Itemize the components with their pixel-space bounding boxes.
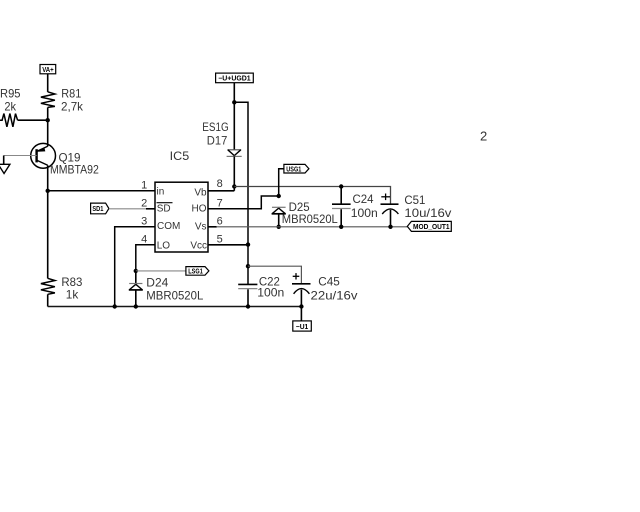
svg-text:100n: 100n xyxy=(257,285,284,299)
svg-text:ES1G: ES1G xyxy=(202,120,229,134)
svg-text:7: 7 xyxy=(217,198,223,210)
wire D24 to rail xyxy=(135,290,137,307)
node C22 on rail xyxy=(246,304,250,308)
wire down to ground xyxy=(3,156,5,165)
svg-text:−U1: −U1 xyxy=(296,324,309,331)
capacitor C51 plus xyxy=(381,194,390,201)
svg-text:22u/16v: 22u/16v xyxy=(311,288,358,302)
IC5 box xyxy=(155,182,208,252)
node D24 on rail xyxy=(134,304,138,308)
bottom rail wire xyxy=(48,306,302,308)
wire R95 to node xyxy=(18,119,48,121)
wire node to R83 xyxy=(47,191,49,279)
svg-text:HO: HO xyxy=(192,203,207,214)
svg-text:2,7k: 2,7k xyxy=(61,99,84,113)
wire pin1 net xyxy=(48,190,155,192)
node collector / pin1 / R83 xyxy=(46,189,50,193)
wire C24 bottom stub xyxy=(340,209,342,227)
resistor R81 xyxy=(41,92,55,108)
node Vb xyxy=(232,184,236,188)
svg-text:MBR0520L: MBR0520L xyxy=(282,212,338,226)
supply label VA+ xyxy=(40,65,56,75)
ground xyxy=(0,164,10,173)
resistor R95 xyxy=(0,114,18,127)
svg-text:1k: 1k xyxy=(66,288,79,302)
wire branch jog xyxy=(234,102,248,284)
svg-text:2: 2 xyxy=(141,198,147,210)
wire LO node to D24 xyxy=(135,271,137,284)
svg-text:SD: SD xyxy=(157,203,171,214)
net flag USG1 xyxy=(284,164,309,173)
node LO / D24 / LSG1 xyxy=(134,269,138,273)
svg-text:4: 4 xyxy=(141,234,147,246)
svg-text:10u/16v: 10u/16v xyxy=(404,206,451,220)
svg-text:USG1: USG1 xyxy=(286,166,301,173)
wire R81 to node xyxy=(47,107,49,120)
diode D24 xyxy=(129,284,143,290)
capacitor C45 plus xyxy=(293,273,300,279)
wire C45 to rail xyxy=(300,290,302,307)
node top branch xyxy=(232,100,236,104)
svg-text:IC5: IC5 xyxy=(170,149,190,163)
svg-text:2: 2 xyxy=(480,129,487,144)
node R81/R95/Q19 emitter xyxy=(46,118,50,122)
svg-text:C45: C45 xyxy=(318,274,340,288)
svg-text:LSG1: LSG1 xyxy=(188,269,203,276)
node C45 on rail xyxy=(299,304,303,308)
wire -U+UGD1 down xyxy=(233,83,235,103)
wire D25 to Vs xyxy=(278,214,280,227)
svg-text:in: in xyxy=(157,186,165,197)
net flag SD1 xyxy=(91,203,109,214)
capacitor C24 xyxy=(332,204,351,208)
wire Vs rail xyxy=(216,226,407,228)
svg-text:VA+: VA+ xyxy=(42,67,54,74)
svg-text:2k: 2k xyxy=(4,99,17,113)
node Vcc xyxy=(246,242,250,246)
supply label -U1 xyxy=(293,321,312,331)
svg-text:8: 8 xyxy=(217,178,223,190)
svg-text:SD1: SD1 xyxy=(92,206,103,213)
wire SD1 to pin2 xyxy=(109,208,147,210)
wire pin8 stub xyxy=(208,190,234,192)
node HO / D25 / USG1 xyxy=(277,194,281,198)
wire C45 jog xyxy=(248,266,301,283)
pin 5 wire Vcc xyxy=(208,244,248,246)
wire C22 to rail xyxy=(247,289,249,306)
wire Vb bus xyxy=(234,187,390,205)
wire pin7 HO net xyxy=(208,196,279,209)
wire D17 to pin8 xyxy=(233,156,235,190)
node C24 bottom xyxy=(339,225,343,229)
svg-text:6: 6 xyxy=(217,216,223,228)
node C51 bottom xyxy=(388,225,392,229)
wire Q19 collector to node xyxy=(47,165,49,191)
node C45 branch xyxy=(246,264,250,268)
svg-text:Vb: Vb xyxy=(194,187,207,198)
net flag LSG1 xyxy=(186,267,209,276)
svg-text:3: 3 xyxy=(141,216,147,228)
wire C24 top stub xyxy=(340,187,342,205)
svg-text:100n: 100n xyxy=(351,206,378,220)
svg-text:C24: C24 xyxy=(353,192,374,206)
wire node to D17 xyxy=(233,102,235,150)
svg-text:5: 5 xyxy=(217,234,223,246)
svg-text:MOD_OUT1: MOD_OUT1 xyxy=(413,224,450,231)
capacitor C22 xyxy=(238,284,257,288)
diode D25 xyxy=(272,207,286,214)
wire to -U1 xyxy=(300,307,302,321)
svg-text:MBR0520L: MBR0520L xyxy=(146,289,203,303)
svg-text:MMBTA92: MMBTA92 xyxy=(50,163,99,177)
svg-text:1: 1 xyxy=(141,180,147,192)
diode D17 xyxy=(227,150,242,157)
node COM on rail xyxy=(113,304,117,308)
wire node to Q19 emitter xyxy=(47,120,49,146)
wire to LSG1 xyxy=(136,270,186,272)
node C24 top xyxy=(339,184,343,188)
svg-text:D24: D24 xyxy=(146,276,168,290)
svg-text:D17: D17 xyxy=(207,133,228,147)
svg-text:Vcc: Vcc xyxy=(190,240,207,251)
capacitor C51 xyxy=(381,204,399,214)
net flag MOD_OUT1 xyxy=(407,221,451,231)
wire VA+ to R81 xyxy=(47,74,49,92)
svg-text:Vs: Vs xyxy=(195,221,207,232)
wire Q19 base xyxy=(4,155,37,157)
wire pin4 LO net xyxy=(136,245,155,271)
pin name SD with overline xyxy=(157,203,173,215)
resistor R83 xyxy=(41,278,55,294)
pin 6 stub xyxy=(208,226,217,228)
wire R83 to bottom rail xyxy=(47,294,49,306)
node D25 on Vs xyxy=(277,225,281,229)
svg-text:LO: LO xyxy=(157,240,171,251)
svg-text:−U+UGD1: −U+UGD1 xyxy=(218,76,251,83)
wire C51 to Vs rail xyxy=(390,210,392,227)
pin 2 stub xyxy=(146,208,155,210)
supply label -U+UGD1 xyxy=(216,73,254,83)
wire USG1 to node xyxy=(279,169,284,196)
transistor Q19 xyxy=(31,143,56,168)
wire pin3 COM net xyxy=(115,227,155,307)
capacitor C45 xyxy=(292,284,311,294)
svg-text:COM: COM xyxy=(157,221,180,232)
